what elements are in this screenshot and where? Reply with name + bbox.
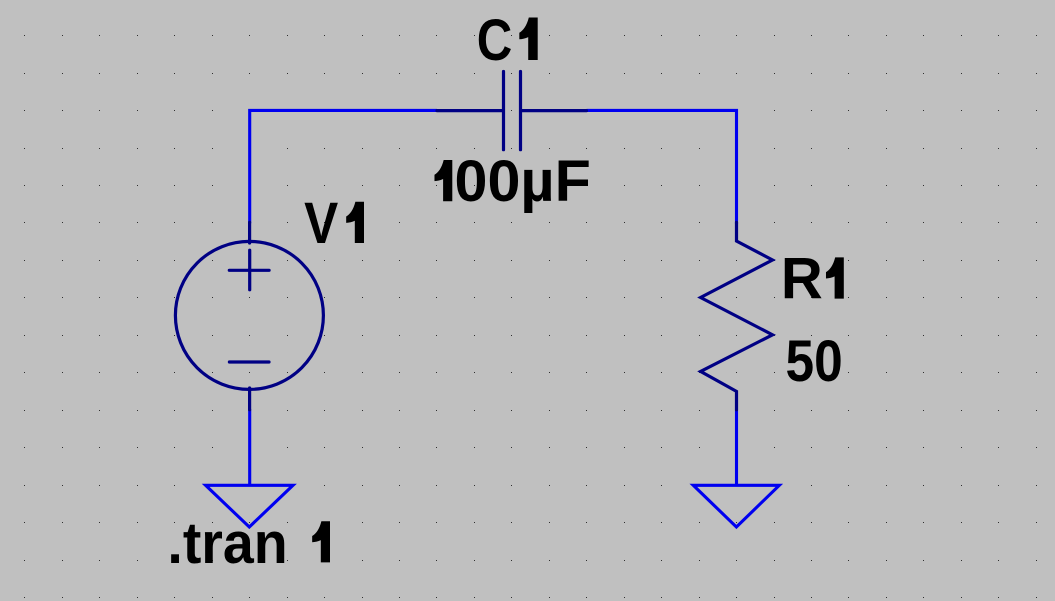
- svg-text:R: R: [781, 247, 823, 312]
- ground: [693, 485, 779, 527]
- wire: [587, 110, 737, 223]
- wire: [735, 410, 738, 485]
- wire: [248, 409, 251, 484]
- resistor R1: [701, 222, 773, 409]
- svg-text:00µF: 00µF: [455, 149, 591, 214]
- svg-text:C: C: [477, 8, 513, 73]
- svg-text:50: 50: [786, 329, 843, 394]
- voltage source V1: [175, 222, 323, 409]
- wire: [250, 110, 437, 223]
- svg-text:V: V: [304, 191, 338, 256]
- svg-text:.tran: .tran: [167, 511, 287, 576]
- ground: [206, 485, 293, 527]
- capacitor C1: [437, 72, 587, 150]
